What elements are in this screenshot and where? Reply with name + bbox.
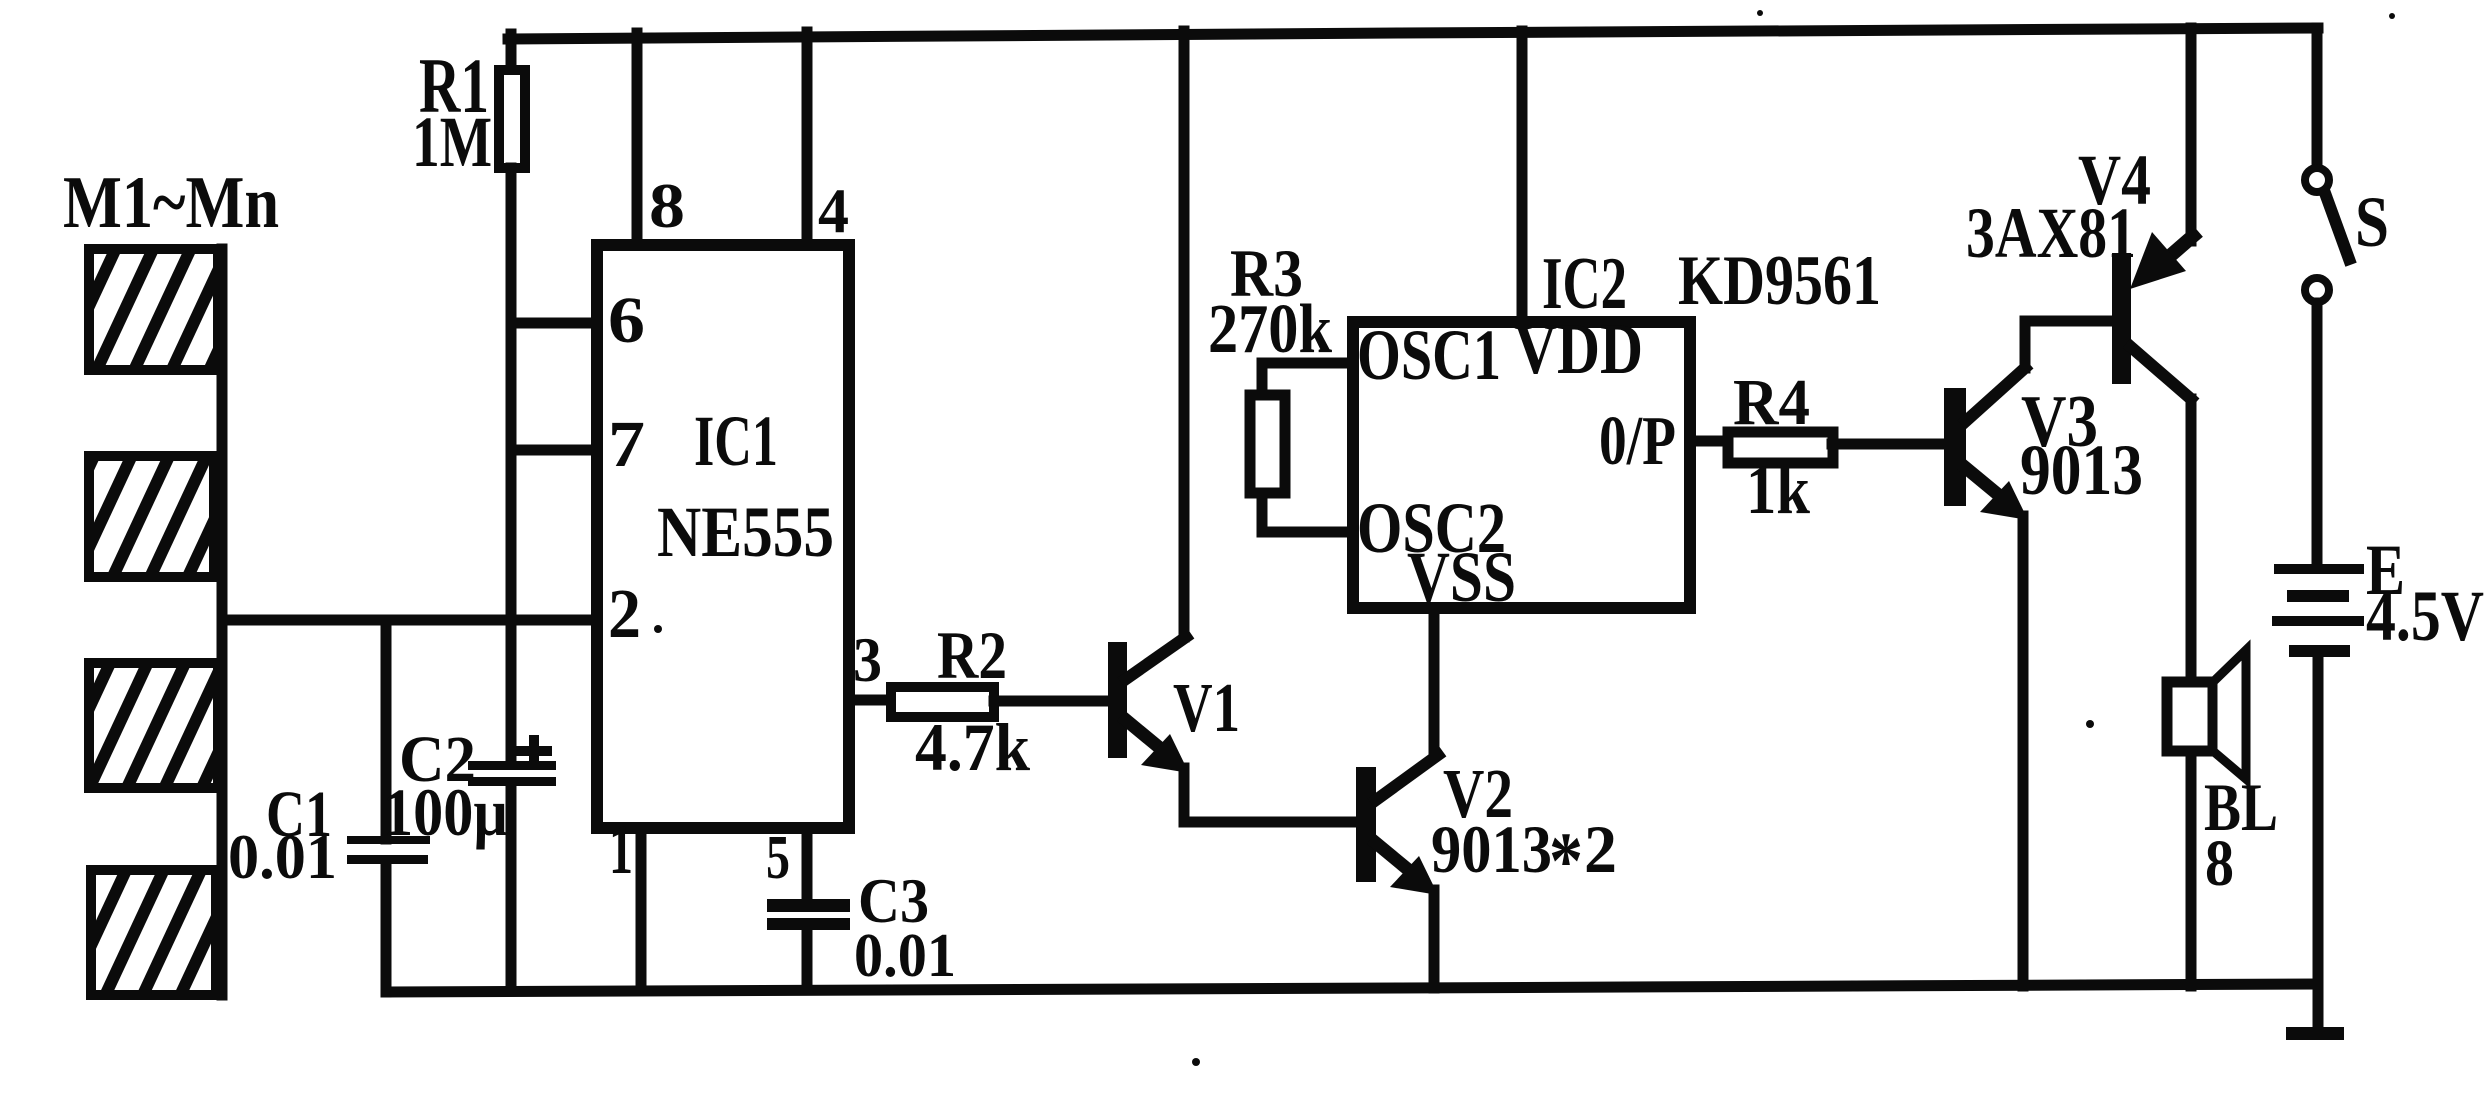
wire sensor bus	[217, 249, 228, 995]
label R1	[419, 42, 489, 129]
svg-text:1: 1	[609, 812, 633, 889]
label 4.7k	[915, 709, 1030, 785]
label V3	[2021, 381, 2098, 463]
svg-text:100µ: 100µ	[383, 774, 508, 850]
svg-text:KD9561: KD9561	[1678, 242, 1881, 320]
svg-text:VSS: VSS	[1407, 537, 1516, 617]
label S	[2355, 182, 2389, 262]
capacitor C3	[767, 828, 850, 989]
wire V1 emitter to V2 base	[1184, 817, 1356, 828]
wire pin 1	[636, 828, 647, 990]
label E	[2366, 530, 2405, 610]
label 0.01 (C1)	[228, 821, 337, 892]
svg-text:0.01: 0.01	[854, 922, 956, 990]
svg-text:0.01: 0.01	[228, 821, 337, 892]
svg-text:5: 5	[766, 824, 790, 892]
label KD9561	[1678, 242, 1881, 320]
pin 1 label	[609, 812, 633, 889]
capacitor C1	[347, 620, 430, 992]
label 100u	[383, 774, 508, 850]
label M1~Mn	[63, 162, 279, 244]
wire pin 8	[632, 33, 643, 245]
wire bottom rail	[387, 984, 2316, 992]
wire pin 6	[511, 318, 597, 329]
svg-text:7: 7	[608, 408, 645, 481]
label 1k	[1746, 452, 1810, 529]
wire pin 7	[511, 445, 597, 456]
svg-text:2: 2	[1584, 811, 1617, 887]
label V4	[2078, 140, 2151, 220]
switch S	[2305, 28, 2349, 564]
transistor V4	[2112, 28, 2193, 682]
label C2	[399, 723, 476, 796]
label 0.01 (C3)	[854, 922, 956, 990]
label 9013*2	[1431, 811, 1617, 906]
label V1	[1173, 670, 1240, 747]
wire top rail	[508, 28, 2318, 39]
contact mat M1	[89, 249, 218, 370]
label R3	[1230, 235, 1303, 311]
svg-text:1M: 1M	[412, 102, 492, 182]
svg-text:6: 6	[608, 284, 645, 357]
IC IC1 NE555	[597, 245, 849, 828]
ground	[2286, 1027, 2344, 1040]
wire O/P	[1690, 436, 1727, 447]
contact mat M3	[89, 663, 218, 788]
label 9013	[2020, 430, 2143, 510]
pin 6 label	[608, 284, 645, 357]
label C1	[266, 778, 332, 851]
label C3	[858, 865, 929, 936]
resistor R2	[891, 687, 1109, 717]
svg-text:R2: R2	[937, 617, 1007, 693]
label VSS	[1407, 537, 1516, 617]
label IC1	[694, 401, 778, 481]
resistor R3	[1250, 363, 1353, 532]
svg-text:9013: 9013	[2020, 430, 2143, 510]
svg-text:9013: 9013	[1431, 811, 1552, 887]
svg-text:R4: R4	[1733, 366, 1810, 439]
speaker BL	[2167, 650, 2246, 986]
svg-text:IC2: IC2	[1542, 243, 1627, 325]
label IC2	[1542, 243, 1627, 325]
battery E	[2272, 564, 2364, 1029]
scan speck dots	[654, 10, 2395, 1066]
resistor R1	[499, 34, 525, 763]
transistor V1	[1108, 31, 1189, 822]
label 3AX81	[1966, 193, 2136, 273]
transistor V2	[1356, 755, 1438, 988]
pin 3 label	[853, 624, 882, 695]
label R4	[1733, 366, 1810, 439]
label 4.5V	[2366, 576, 2484, 656]
pin 4 label	[818, 175, 849, 246]
svg-text:8: 8	[649, 170, 685, 241]
label R2	[937, 617, 1007, 693]
transistor V3	[1944, 321, 2111, 986]
svg-text:OSC1: OSC1	[1357, 315, 1501, 395]
label 270k	[1208, 291, 1332, 368]
pin 2 label	[608, 576, 641, 653]
wire pin 3	[849, 695, 891, 706]
svg-text:S: S	[2355, 182, 2389, 262]
contact mat M2	[89, 456, 214, 577]
label O/P	[1599, 403, 1676, 480]
label BL	[2204, 769, 2278, 845]
label VDD	[1514, 309, 1643, 389]
svg-text:270k: 270k	[1208, 291, 1332, 368]
label 1M	[412, 102, 492, 182]
pin 7 label	[608, 408, 645, 481]
wire pin2 net	[222, 615, 597, 626]
IC IC2 KD9561	[1353, 322, 1690, 608]
contact mat M4	[91, 870, 216, 995]
svg-text:0/P: 0/P	[1599, 403, 1676, 480]
svg-text:IC1: IC1	[694, 401, 778, 481]
label NE555	[657, 492, 834, 572]
svg-text:3AX81: 3AX81	[1966, 193, 2136, 273]
label OSC1	[1357, 315, 1501, 395]
label 8	[2205, 827, 2234, 900]
wire pin 4	[802, 32, 813, 245]
svg-text:1k: 1k	[1746, 452, 1810, 529]
svg-text:8: 8	[2205, 827, 2234, 900]
svg-text:*: *	[1549, 815, 1583, 906]
svg-text:2: 2	[608, 576, 641, 653]
svg-text:4.5V: 4.5V	[2366, 576, 2484, 656]
pin 8 label	[649, 170, 685, 241]
svg-text:4.7k: 4.7k	[915, 709, 1030, 785]
label OSC2	[1357, 488, 1506, 568]
svg-text:V1: V1	[1173, 670, 1240, 747]
capacitor C2	[468, 740, 556, 990]
wire VDD	[1517, 31, 1528, 322]
svg-text:NE555: NE555	[657, 492, 834, 572]
wire VSS to V2 collector	[1429, 608, 1440, 756]
svg-text:3: 3	[853, 624, 882, 695]
svg-text:4: 4	[818, 175, 849, 246]
pin 5 label	[766, 824, 790, 892]
label V2	[1443, 756, 1513, 833]
svg-text:M1~Mn: M1~Mn	[63, 162, 279, 244]
resistor R4	[1728, 432, 1944, 463]
